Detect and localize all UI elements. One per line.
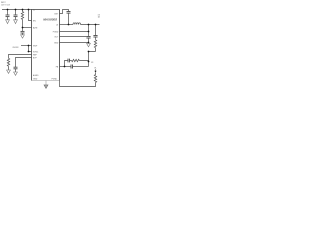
wire stub pin SKIP: [21, 45, 32, 47]
capacitor C3: [21, 28, 25, 35]
resistor R2: [7, 58, 9, 70]
capacitor C4: [14, 67, 18, 72]
wire upper branch right: [79, 61, 88, 62]
svg-text:GND: GND: [54, 42, 59, 44]
capacitor C2 input: [14, 10, 18, 20]
svg-text:INPUT: INPUT: [1, 2, 6, 4]
resistor R4: [72, 59, 80, 61]
wire sense line 2: [60, 36, 87, 38]
wire VOUT rail: [81, 24, 100, 26]
svg-text:BST: BST: [55, 13, 60, 15]
svg-text:SYNC: SYNC: [33, 51, 39, 53]
wire EN drop: [29, 10, 32, 21]
wire tie: [28, 46, 30, 52]
resistor R3 divider: [94, 40, 96, 52]
svg-text:EN: EN: [33, 20, 36, 22]
capacitor C6 output: [86, 25, 90, 44]
svg-text:FB: FB: [56, 66, 59, 68]
svg-text:PGND: PGND: [53, 31, 59, 33]
svg-text:MAX8505: MAX8505: [43, 17, 57, 21]
wire divider to FB node: [89, 52, 96, 62]
ground: [21, 35, 25, 38]
ground: [14, 72, 18, 75]
ground: [44, 85, 48, 88]
wire REF line: [9, 55, 32, 59]
svg-text:R3: R3: [91, 62, 93, 64]
ground: [87, 43, 91, 46]
wire GND stub: [45, 81, 47, 86]
svg-text:OUT: OUT: [54, 36, 59, 38]
wire BYP line: [16, 58, 32, 68]
node pin labels left: [33, 9, 58, 80]
IC U1 box: [32, 10, 60, 81]
svg-text:REF: REF: [33, 54, 38, 56]
capacitor C1 input: [6, 10, 10, 20]
svg-text:GND: GND: [33, 78, 38, 80]
svg-text:VL: VL: [94, 67, 96, 69]
node pin labels right: [53, 13, 59, 68]
capacitor C7 feedforward: [93, 25, 97, 40]
wire OUT sense line: [60, 31, 89, 33]
svg-text:SKIP: SKIP: [33, 45, 38, 47]
ground: [7, 70, 11, 73]
ground: [6, 20, 10, 24]
svg-text:AGND: AGND: [33, 74, 39, 77]
capacitor C5 bootstrap: [67, 12, 71, 25]
node VL arrow: [94, 69, 96, 73]
capacitor C9 series: [68, 59, 72, 63]
node input label: [1, 2, 10, 6]
capacitor C8 series: [65, 65, 89, 69]
ground: [14, 20, 18, 24]
svg-text:2.6V TO 5.5V: 2.6V TO 5.5V: [1, 4, 10, 6]
wire FB stub: [60, 66, 65, 68]
node junction dots: [7, 9, 97, 68]
wire R1 node to AVIN pin: [23, 27, 32, 29]
wire LX rail: [60, 24, 74, 26]
svg-text:PGND: PGND: [52, 78, 58, 80]
resistor R5: [94, 75, 96, 83]
svg-text:BYP: BYP: [33, 57, 38, 59]
wire input rail: [2, 9, 32, 11]
resistor R1: [21, 10, 23, 28]
wire pin SYNC: [29, 51, 32, 53]
wire gnd sense line: [60, 42, 89, 44]
inductor L1: [73, 23, 81, 25]
wire BST loop: [60, 10, 69, 14]
svg-text:AVIN: AVIN: [33, 26, 38, 29]
node output label: [98, 14, 102, 18]
wire bottom rail: [60, 81, 96, 87]
svg-text:1A: 1A: [98, 16, 100, 19]
wire R5 to arrow: [95, 73, 97, 75]
wire FB up: [88, 62, 90, 67]
wire upper branch: [65, 61, 69, 67]
svg-text:ON/OFF: ON/OFF: [12, 47, 18, 49]
svg-text:LX: LX: [56, 24, 59, 26]
